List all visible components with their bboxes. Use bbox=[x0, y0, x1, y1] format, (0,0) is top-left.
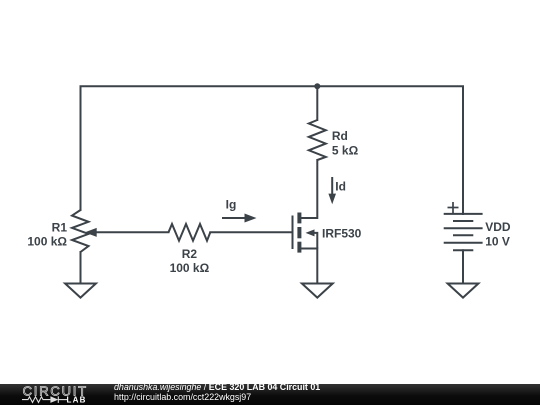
footer bar bbox=[0, 384, 540, 405]
source lead bbox=[301, 248, 317, 250]
resistor R2 bbox=[169, 224, 211, 241]
channel bar body bbox=[297, 227, 301, 238]
svg-text:10 V: 10 V bbox=[485, 234, 510, 248]
svg-text:Id: Id bbox=[335, 179, 346, 193]
channel bar drain bbox=[297, 213, 301, 224]
transistor Q1 IRF530 (NMOS) bbox=[293, 213, 318, 253]
wire source to ground bbox=[316, 249, 318, 284]
svg-text:R1: R1 bbox=[52, 220, 68, 234]
ground (below Q1 source) bbox=[302, 284, 333, 298]
junction dot node drain rail bbox=[314, 83, 320, 89]
svg-text:IRF530: IRF530 bbox=[322, 226, 362, 240]
svg-text:LAB: LAB bbox=[67, 395, 87, 404]
plate short 2 bbox=[453, 234, 473, 236]
plate short 1 bbox=[453, 220, 473, 222]
potentiometer R1 wiper arrow bbox=[85, 228, 97, 237]
wire battery to ground bbox=[462, 250, 464, 283]
channel bar source bbox=[297, 242, 301, 253]
svg-text:100 kΩ: 100 kΩ bbox=[170, 261, 210, 275]
svg-text:Rd: Rd bbox=[332, 129, 348, 143]
svg-text:5 kΩ: 5 kΩ bbox=[332, 144, 359, 158]
svg-text:VDD: VDD bbox=[485, 220, 511, 234]
resistor Rd bbox=[309, 120, 326, 160]
plate long bottom bbox=[444, 242, 483, 244]
footer text bbox=[114, 383, 320, 402]
wire R2 to gate bbox=[210, 231, 292, 233]
plate long middle bbox=[444, 227, 483, 229]
current arrow Id bbox=[328, 177, 336, 204]
plate short 3 bbox=[453, 249, 473, 251]
wire R1 bottom bbox=[80, 252, 82, 284]
body lead with arrow bbox=[313, 233, 317, 249]
svg-text:Ig: Ig bbox=[226, 198, 237, 212]
svg-text:R2: R2 bbox=[182, 247, 198, 261]
ground (below battery) bbox=[448, 284, 479, 298]
plus sign bbox=[448, 202, 459, 213]
svg-text:100 kΩ: 100 kΩ bbox=[27, 234, 67, 248]
wire wiper to R2 bbox=[96, 231, 169, 233]
wire Rd to top rail bbox=[316, 86, 318, 120]
potentiometer R1 bbox=[72, 210, 89, 252]
CircuitLab logo bbox=[20, 385, 95, 405]
gate bar bbox=[292, 216, 294, 250]
battery V1 VDD bbox=[444, 214, 483, 250]
current arrow Ig bbox=[222, 214, 257, 223]
wire top rail bbox=[81, 86, 464, 214]
ground (below R1) bbox=[65, 284, 96, 298]
plate long top bbox=[444, 213, 483, 215]
drain lead bbox=[301, 217, 317, 219]
wire drain to Rd bbox=[316, 160, 318, 218]
